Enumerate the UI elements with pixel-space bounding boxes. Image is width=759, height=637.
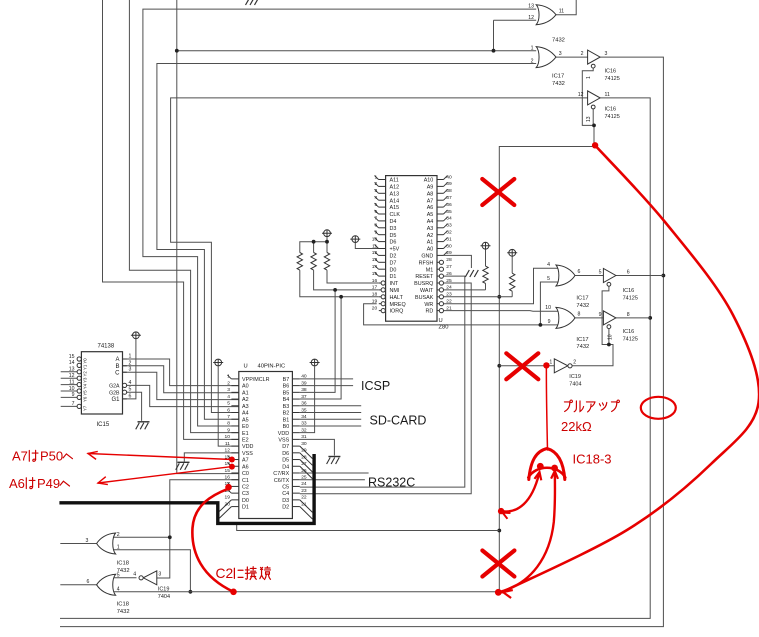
svg-text:74125: 74125 [623,336,638,342]
svg-text:B3: B3 [283,404,290,410]
red text pull-up [564,400,619,412]
wire D2 diagonal to bus [300,507,313,520]
svg-text:5: 5 [374,202,377,208]
svg-text:8: 8 [627,312,630,318]
red text 22k ohm [561,419,592,434]
svg-text:A3: A3 [427,226,434,232]
svg-text:5: 5 [117,572,120,578]
buffer IC16b 74125 pins 12,11,13 [578,91,610,122]
svg-text:A7: A7 [242,458,249,464]
red hand-drawn gate IC18-3 [528,449,565,480]
svg-text:A8: A8 [427,191,434,197]
wire gate IC18 pin3 output [60,543,96,545]
label IC16 74125 (buffer a) [605,69,620,82]
wire WR net: Z80 pin22 to OR IC17 pin4 [444,268,558,303]
svg-text:3: 3 [605,51,608,57]
svg-text:Y7: Y7 [83,405,88,411]
svg-text:D6: D6 [390,240,397,246]
wire GND net: Z80 pin29 to ground [444,255,472,268]
svg-text:C7/RX: C7/RX [273,471,289,477]
svg-text:1: 1 [227,374,230,380]
svg-text:IC17: IC17 [576,296,588,302]
svg-text:7432: 7432 [117,609,130,615]
wire PIC VDD pin11 from power [218,366,239,446]
ground for Z80 GND pin29 [465,270,478,277]
svg-text:VPP/MCLR: VPP/MCLR [242,377,270,383]
svg-text:MREQ: MREQ [390,302,406,308]
wire SD-CARD B1 [300,418,361,420]
red dot gate input left [537,463,544,470]
wire 74138 G2B to ground [127,392,142,421]
svg-text:5: 5 [129,387,132,393]
label IC17 7432 (gate c) [576,296,589,309]
svg-text:D1: D1 [390,274,397,280]
svg-text:C3: C3 [242,491,249,497]
wire inverter IC19 pin1 input [499,365,554,367]
svg-text:IC16: IC16 [623,329,635,335]
svg-text:IORQ: IORQ [390,309,404,315]
svg-text:A14: A14 [390,198,400,204]
svg-text:11: 11 [225,441,230,447]
svg-text:A2: A2 [427,233,434,239]
wire BUSRQ net: Z80 pin25 to PIC C4 [300,283,471,494]
svg-text:37: 37 [301,394,307,400]
svg-text:Y2: Y2 [83,371,88,377]
wire NMI net: resistor R2 to Z80 pin17 and PIC B5 [300,270,379,392]
svg-text:2: 2 [227,380,230,386]
svg-text:3: 3 [158,572,161,578]
svg-text:7: 7 [72,401,75,407]
svg-text:7432: 7432 [576,344,589,350]
svg-text:Z80: Z80 [439,325,449,331]
svg-text:Y3: Y3 [83,377,88,383]
svg-text:20: 20 [372,305,378,311]
svg-text:4: 4 [133,572,136,578]
svg-text:13: 13 [69,367,75,373]
svg-text:BUSAK: BUSAK [415,295,434,301]
svg-text:2: 2 [374,181,377,187]
svg-text:74125: 74125 [623,295,638,301]
svg-text:3: 3 [559,51,562,57]
or-gate IC18b 7432 pins 5,4,6 (mirrored) [87,572,120,595]
inverter IC19b 7404 pins 3,4 (mirrored) [133,571,161,585]
red text IC18-3 [573,452,612,467]
svg-text:WR: WR [424,302,433,308]
svg-text:11: 11 [605,92,610,98]
svg-text:A4: A4 [427,219,434,225]
wire net E1: top edge to PIC pin9 E1 [129,0,238,433]
red X mark 2 (deleted connection middle) [506,353,538,379]
svg-text:22: 22 [301,495,307,501]
svg-text:IC16: IC16 [605,107,617,113]
svg-text:A2: A2 [242,397,249,403]
inverter IC19a 7404 pins 1,2 [549,359,576,373]
svg-text:A7: A7 [12,449,28,464]
red dot at bottom corner node [495,589,502,596]
svg-text:U: U [439,318,443,324]
svg-text:3: 3 [227,387,230,393]
wire RS232C RX [300,472,369,474]
svg-text:2: 2 [117,532,120,538]
svg-text:11: 11 [559,9,564,15]
svg-text:10: 10 [69,386,75,392]
wire resistor top bus to power [300,237,329,253]
svg-text:5: 5 [547,276,550,282]
svg-text:40: 40 [446,174,452,180]
or-gate IC17b 7432 pins 1,2,3 [531,46,562,68]
svg-text:B7: B7 [283,377,290,383]
svg-text:D0: D0 [390,267,397,273]
svg-text:14: 14 [372,264,378,270]
svg-text:D4: D4 [390,219,397,225]
wire buffer enable chain IC16 pins 1,13 [582,68,596,146]
wire D5 diagonal to bus [300,460,313,473]
IC 74138 decoder IC15 [69,344,132,429]
svg-text:SD-CARD: SD-CARD [370,414,427,428]
svg-text:HALT: HALT [390,295,404,301]
red dot at PIC A6 pin [229,464,235,470]
svg-text:A1: A1 [427,240,434,246]
svg-text:13: 13 [372,257,378,263]
svg-text:C: C [115,370,120,376]
svg-text:P50: P50 [40,449,63,464]
wire thick D-bus [59,454,314,523]
svg-text:6: 6 [227,407,230,413]
red annotation curve C2 connection [192,489,233,592]
svg-text:74125: 74125 [605,114,620,120]
wire gate IC18 pin1 input to X-net [113,550,192,594]
wire buffer IC16 pin8 output [616,317,650,319]
svg-text:IC17: IC17 [552,74,564,80]
wire net E0 / OR IC17 pin13 input [143,9,536,426]
svg-text:VSS: VSS [242,451,253,457]
wire MREQ net: Z80 pin19 to OR gates IC17 pins 5,9 [364,282,558,327]
svg-text:B0: B0 [283,424,290,430]
IC Z80 CPU U [372,174,452,330]
power symbol for R5 [507,249,517,256]
svg-text:9: 9 [599,312,602,318]
wire net A5 / OR IC17 pin2 input [157,64,536,420]
svg-text:VSS: VSS [278,437,289,443]
svg-text:B4: B4 [283,397,290,403]
svg-text:A6: A6 [242,464,249,470]
svg-text:33: 33 [301,421,307,427]
svg-text:A7: A7 [427,198,434,204]
svg-text:C2: C2 [242,485,249,491]
ground for PIC VSS pin12 [176,462,190,470]
svg-text:34: 34 [446,216,452,222]
svg-text:18: 18 [372,292,378,298]
svg-text:4: 4 [227,394,230,400]
wire gate IC18 pin5 input from inverter IC19 output [113,577,137,579]
red dot at buffer enable junction [592,142,598,148]
svg-text:15: 15 [372,271,378,277]
IC PIC microcontroller U 40PIN-PIC [225,364,307,519]
svg-text:6: 6 [129,393,132,399]
svg-text:40: 40 [301,374,307,380]
svg-text:29: 29 [446,250,452,256]
svg-text:NMI: NMI [390,288,400,294]
svg-text:G2B: G2B [109,390,120,396]
svg-text:IC18: IC18 [117,561,129,567]
wire RD net: Z80 pin21 to OR IC17 pin10 [444,310,558,313]
svg-text:IC19: IC19 [569,374,581,380]
wire 74138 C output to PIC A2 [123,372,239,399]
svg-text:7432: 7432 [576,303,589,309]
svg-text:D5: D5 [390,233,397,239]
ground for PIC VSS pin31 [327,457,341,465]
svg-text:28: 28 [446,257,452,263]
svg-text:38: 38 [301,387,307,393]
svg-text:10: 10 [545,305,551,311]
wire D4 diagonal to bus [300,466,313,479]
svg-text:D7: D7 [282,444,289,450]
wire D7 diagonal to bus [300,446,313,459]
svg-text:G1: G1 [111,397,120,403]
wire HALT net: resistor R1 to Z80 pin18 and PIC B4 [300,270,379,399]
wire RS232C TX [300,479,365,481]
svg-text:CLK: CLK [390,212,401,218]
label 7432 for top gate [552,38,565,44]
svg-text:20: 20 [225,501,231,507]
svg-text:A15: A15 [390,205,400,211]
svg-text:7: 7 [227,414,230,420]
svg-text:D3: D3 [390,226,397,232]
wire net A4 / buffer IC16 pin12 input [171,98,588,413]
red ellipse marker [641,397,676,419]
svg-text:1: 1 [549,360,552,366]
wire net E2: top edge to PIC pin10 E2 [103,0,239,439]
svg-text:9: 9 [548,319,551,325]
svg-text:A: A [115,357,119,363]
wire D0 diagonal to bus [219,500,231,512]
svg-text:21: 21 [446,305,452,311]
svg-text:9: 9 [227,427,230,433]
svg-text:32: 32 [301,427,307,433]
svg-text:30: 30 [301,441,307,447]
svg-text:37: 37 [446,195,452,201]
red text A6 wa P49 e [9,476,70,491]
svg-text:C6/TX: C6/TX [274,478,290,484]
svg-text:23: 23 [446,292,452,298]
svg-text:26: 26 [446,271,452,277]
wire buffer IC16 C/D enable chain to inverter IC19 output [571,286,613,366]
svg-text:1: 1 [374,174,377,180]
svg-text:29: 29 [301,448,307,454]
svg-text:36: 36 [301,401,307,407]
resistor R3 (INT pullup) [324,253,329,271]
wire BUSAK net: Z80 pin23 to pull-up resistor R5 [444,296,513,298]
label ICSP [361,379,390,393]
red curve bottom node to gate right input [498,471,558,592]
svg-text:ICSP: ICSP [361,379,390,393]
buffer IC16c 74125 pins 5,6 [599,269,630,287]
svg-text:3: 3 [374,188,377,194]
power symbol for R4 [481,242,491,249]
svg-text:BUSRQ: BUSRQ [414,281,433,287]
resistor R2 (NMI pullup) [311,253,316,271]
svg-text:31: 31 [301,434,307,440]
svg-text:16: 16 [372,278,378,284]
red dot on bottom wire (C2 connect) [230,589,237,596]
label IC16 74125 (buffer d) [623,329,638,342]
wire OR IC17 pin6 output to buffer IC16 pin5 [575,275,603,277]
wire D3 diagonal to bus [300,500,313,513]
wire ICSP B7 [300,378,353,380]
wire D1 diagonal to bus [219,507,231,519]
svg-text:1: 1 [129,354,132,360]
svg-text:RS232C: RS232C [368,475,415,489]
wire WAIT net: Z80 pin24 to pull-up resistor R4 [444,289,486,291]
power symbol for INT/NMI/HALT pullups [322,230,332,237]
svg-text:7432: 7432 [552,81,565,87]
svg-text:5: 5 [599,270,602,276]
wire OR1 IC17 pin12 input elbow [494,19,537,21]
svg-text:VDD: VDD [278,431,289,437]
svg-text:38: 38 [446,188,452,194]
svg-text:IC19: IC19 [158,587,170,593]
svg-text:19: 19 [225,495,231,501]
wire gate IC18 pin6 output [60,584,96,586]
wire SD-CARD B3 [300,405,361,407]
svg-text:12: 12 [528,15,534,21]
svg-text:4: 4 [374,195,377,201]
svg-text:E2: E2 [242,437,249,443]
svg-text:A10: A10 [424,178,434,184]
red dot at PIC C2 pin [225,484,232,491]
svg-text:A5: A5 [242,417,249,423]
svg-text:1: 1 [117,545,120,551]
svg-text:17: 17 [372,285,378,291]
wire INT net: resistor R3 to Z80 pin16 [327,270,379,283]
svg-text:2: 2 [581,51,584,57]
svg-text:8: 8 [578,311,581,317]
svg-text:IC18-3: IC18-3 [573,452,612,467]
label IC16 74125 (buffer b) [605,107,620,120]
svg-text:Y4: Y4 [83,383,88,389]
svg-text:A0: A0 [242,384,249,390]
svg-text:24: 24 [446,285,452,291]
wire X-net vertical (BUSAK net) with corners [113,147,594,592]
label RS232C [368,475,415,489]
resistor R1 (HALT pullup) [297,253,302,271]
wire pull-up R5 bottom to BUSAK [511,291,513,297]
red dot at inverter input (pull-up note) [543,362,549,368]
svg-text:G2A: G2A [109,384,120,390]
wire 74138 B output to PIC A1 [123,366,239,393]
wire 74138 input pins left stubs [61,372,77,407]
wire buffer IC16 pin3 output / BUSRQ-rail [60,57,665,627]
svg-text:11: 11 [69,379,74,385]
resistor R4 (WAIT pullup) [483,266,488,283]
svg-text:22kΩ: 22kΩ [561,419,592,434]
svg-text:A1: A1 [242,390,249,396]
svg-text:A3: A3 [242,404,249,410]
svg-text:34: 34 [301,414,307,420]
svg-text:10: 10 [225,434,231,440]
svg-text:74138: 74138 [98,344,115,350]
label IC19 7404 (bottom) [158,587,170,600]
svg-text:B2: B2 [283,411,290,417]
wire SD-CARD B0 [300,425,361,427]
svg-text:5: 5 [227,401,230,407]
svg-text:B5: B5 [283,390,290,396]
svg-text:IC15: IC15 [97,422,110,428]
svg-text:8: 8 [374,223,377,229]
svg-text:12: 12 [578,92,584,98]
svg-text:E1: E1 [242,431,249,437]
red arrow A7 to text [88,451,232,459]
svg-text:4: 4 [117,586,120,592]
svg-text:RFSH: RFSH [419,260,434,266]
svg-text:E0: E0 [242,424,249,430]
svg-text:33: 33 [446,223,452,229]
label IC16 74125 (buffer c) [623,288,638,301]
svg-text:P49: P49 [37,476,60,491]
svg-text:27: 27 [301,461,307,467]
red X mark 1 (deleted connection upper) [482,179,514,205]
svg-text:D4: D4 [282,464,289,470]
svg-text:D0: D0 [242,498,249,504]
wire D1 tap line to X-net [237,525,500,531]
svg-text:39: 39 [301,380,307,386]
svg-text:12: 12 [69,373,75,379]
svg-text:10: 10 [608,334,614,340]
label IC17 7432 (gate d) [576,337,589,350]
svg-text:12: 12 [372,250,378,256]
svg-text:RESET: RESET [415,274,434,280]
svg-text:IC18: IC18 [117,602,129,608]
or-gate IC17c 7432 pins 4,5,6 [547,262,580,286]
svg-text:D5: D5 [282,458,289,464]
label IC17 7432 [552,74,565,87]
wire Z80 +5V pin11 to power [355,243,379,249]
red big curve from buffer enables to bottom node [502,145,759,598]
ground for 74138 G2B [136,422,150,430]
svg-text:Y6: Y6 [83,396,88,402]
svg-text:2: 2 [531,58,534,64]
svg-text:B1: B1 [283,417,290,423]
svg-text:15: 15 [225,468,231,474]
wire OR1 IC17 pin11 output to top edge [556,0,576,15]
svg-text:VDD: VDD [242,444,253,450]
wire IORQ left elbow on Z80 [0,0,1,1]
svg-text:28: 28 [301,454,307,460]
or-gate IC18a 7432 pins 2,1,3 (mirrored) [86,532,120,554]
svg-text:7432: 7432 [552,38,565,44]
power symbol for Z80 +5V [350,236,360,243]
svg-text:6: 6 [578,269,581,275]
red text C2 ni setsuzoku [216,566,271,581]
svg-text:D1: D1 [242,505,249,511]
svg-text:27: 27 [446,264,452,270]
svg-text:A12: A12 [390,185,400,191]
wire OR IC17 pin8 output to buffer IC16 pin9 [575,317,603,319]
wire pull-up R5 top to power [511,256,513,273]
svg-text:C2: C2 [216,566,234,581]
red curve X-net to gate left input [501,472,541,512]
label IC18 7432 (gate a) [117,561,130,574]
svg-text:39: 39 [446,181,452,187]
svg-text:INT: INT [390,281,399,287]
svg-text:1: 1 [531,46,534,52]
wire net C1: PIC pin16 to 74138 G1 area gates and inverter IC19 [113,480,239,578]
svg-text:Y0: Y0 [83,358,88,364]
wire RESET net: Z80 pin26 to PIC C5 [300,276,465,487]
svg-text:GND: GND [421,254,433,260]
svg-text:Y1: Y1 [83,364,88,370]
wire SD-CARD B2 [300,412,361,414]
